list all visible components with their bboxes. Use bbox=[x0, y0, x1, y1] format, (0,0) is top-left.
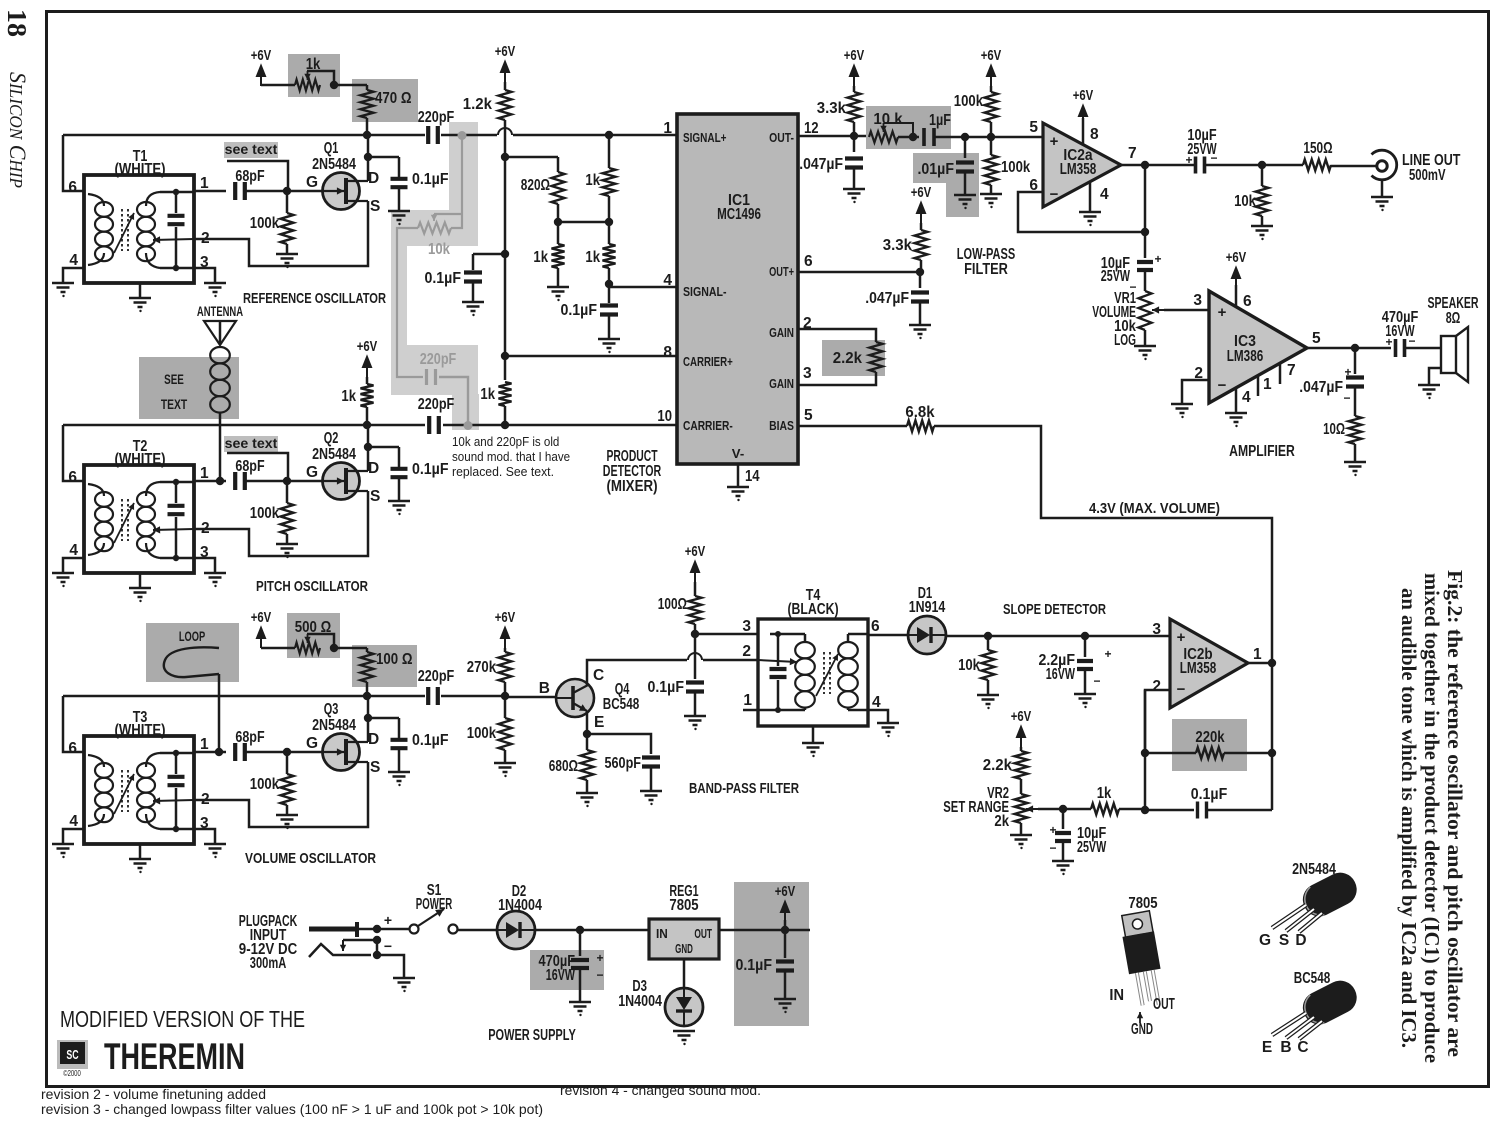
svg-text:OUT: OUT bbox=[694, 927, 712, 941]
svg-text:10: 10 bbox=[657, 408, 672, 425]
svg-text:VOLUME OSCILLATOR: VOLUME OSCILLATOR bbox=[245, 850, 376, 867]
svg-text:470 Ω: 470 Ω bbox=[375, 90, 412, 107]
svg-text:−: − bbox=[1408, 334, 1415, 348]
wire bbox=[1206, 809, 1272, 812]
ground bbox=[1052, 861, 1074, 870]
svg-text:0.1µF: 0.1µF bbox=[561, 302, 598, 319]
svg-text:2.2k: 2.2k bbox=[833, 350, 863, 367]
ground bbox=[727, 487, 749, 496]
svg-text:0.1µF: 0.1µF bbox=[412, 461, 449, 478]
svg-text:+: + bbox=[1185, 153, 1192, 167]
junction bbox=[1258, 161, 1266, 169]
svg-text:MODIFIED VERSION OF THE: MODIFIED VERSION OF THE bbox=[60, 1006, 305, 1032]
svg-text:100k: 100k bbox=[467, 725, 497, 742]
svg-text:revision 2 - volume finetuning: revision 2 - volume finetuning added bbox=[41, 1087, 266, 1102]
transistor Q1 2N5484 bbox=[323, 173, 360, 210]
svg-text:10 k: 10 k bbox=[873, 111, 903, 128]
svg-text:1: 1 bbox=[200, 736, 209, 753]
svg-text:.047µF: .047µF bbox=[799, 156, 843, 173]
svg-text:G: G bbox=[306, 464, 318, 481]
capacitor .01uF (new filter cap) bbox=[964, 137, 967, 158]
ground bbox=[598, 339, 620, 348]
resistor 100 ohm (T4 feed) bbox=[694, 582, 697, 596]
T3 internal tank capacitor bbox=[175, 753, 178, 774]
junction bbox=[501, 250, 509, 258]
svg-text:560pF: 560pF bbox=[605, 755, 642, 772]
capacitor 0.1uF (drain bypass) bbox=[391, 469, 408, 477]
svg-text:0.1µF: 0.1µF bbox=[412, 171, 449, 188]
svg-text:sound mod. that I have: sound mod. that I have bbox=[452, 449, 570, 464]
svg-text:1k: 1k bbox=[585, 172, 600, 189]
svg-text:2N5484: 2N5484 bbox=[312, 156, 356, 173]
ground bbox=[388, 501, 410, 510]
capacitor 0.1uF (feedback) bbox=[1198, 802, 1207, 819]
junction bbox=[1059, 805, 1067, 813]
svg-text:Fig.2: the reference oscillato: Fig.2: the reference oscillator and pitc… bbox=[1443, 570, 1467, 1057]
wire bbox=[1020, 823, 1023, 834]
svg-text:1k: 1k bbox=[306, 56, 321, 73]
svg-text:LOOP: LOOP bbox=[179, 628, 205, 644]
wire (Q4 collector to T4 pin 2) bbox=[587, 660, 687, 685]
T2 case ground wire bbox=[139, 573, 142, 587]
wire (+ supply) bbox=[359, 928, 410, 931]
wire (IC3 output) bbox=[1307, 347, 1391, 350]
ground bbox=[388, 211, 410, 220]
svg-text:+6V: +6V bbox=[251, 48, 272, 64]
svg-text:(BLACK): (BLACK) bbox=[787, 601, 838, 618]
junction bbox=[576, 926, 584, 934]
T2 pin 4 ground wire bbox=[63, 558, 84, 572]
T1 secondary winding bbox=[137, 202, 155, 217]
svg-text:CARRIER-: CARRIER- bbox=[683, 418, 733, 433]
ground bbox=[204, 283, 226, 292]
junction bbox=[909, 133, 917, 141]
T1 pin 1 wire to gate bbox=[194, 190, 226, 193]
highlight box for resistor 220k bbox=[1172, 719, 1247, 771]
IC1 pin 14 wire bbox=[737, 464, 740, 486]
svg-text:2N5484: 2N5484 bbox=[312, 446, 356, 463]
junction bbox=[215, 748, 223, 756]
svg-text:1: 1 bbox=[743, 692, 752, 709]
ground bbox=[547, 287, 569, 296]
highlight box for resistor 470 ohm bbox=[352, 79, 418, 122]
junction bbox=[283, 187, 291, 195]
wire bbox=[457, 929, 498, 932]
svg-text:3: 3 bbox=[803, 365, 812, 382]
T3 tap wire to pin 2 bbox=[153, 800, 194, 801]
svg-text:+: + bbox=[384, 912, 392, 928]
capacitor .047uF (out+ filter) bbox=[919, 272, 922, 288]
svg-text:D: D bbox=[368, 460, 379, 477]
grey mod capacitor 220pF bbox=[427, 369, 436, 385]
svg-text:1k: 1k bbox=[585, 249, 600, 266]
capacitor 0.1uF (output) bbox=[784, 930, 787, 958]
ground bbox=[576, 793, 598, 802]
svg-text:300mA: 300mA bbox=[250, 955, 287, 972]
junction bbox=[605, 280, 613, 288]
svg-text:220pF: 220pF bbox=[420, 351, 457, 368]
diode D2 1N4004 bbox=[497, 911, 535, 949]
resistor 1k (carrier divider) bbox=[504, 356, 507, 380]
wire bbox=[558, 221, 609, 224]
T1 primary winding bbox=[95, 202, 113, 217]
svg-text:2.2k: 2.2k bbox=[983, 757, 1013, 774]
T1 pin 4 ground wire bbox=[63, 268, 84, 282]
svg-text:8Ω: 8Ω bbox=[1446, 310, 1461, 327]
svg-text:−: − bbox=[1218, 377, 1227, 394]
svg-text:B: B bbox=[539, 680, 550, 697]
svg-text:+6V: +6V bbox=[495, 44, 516, 60]
capacitor 0.1uF (carrier bypass) bbox=[472, 254, 475, 270]
svg-text:1µF: 1µF bbox=[929, 112, 951, 129]
svg-text:7805: 7805 bbox=[1128, 895, 1158, 912]
grey mod wire bbox=[397, 228, 423, 377]
wire bbox=[505, 156, 558, 159]
svg-text:D: D bbox=[368, 170, 379, 187]
svg-text:D: D bbox=[1295, 932, 1306, 949]
svg-text:GAIN: GAIN bbox=[769, 376, 794, 391]
wire (IC1 pin 3 GAIN) bbox=[798, 372, 876, 385]
wire (Q4 base) bbox=[505, 696, 556, 699]
resistor 1k (to signal-) bbox=[608, 222, 611, 244]
T4 internal capacitor bbox=[770, 669, 787, 677]
svg-text:100Ω: 100Ω bbox=[658, 596, 687, 613]
svg-text:270k: 270k bbox=[467, 659, 497, 676]
svg-text:an audible tone which is ampli: an audible tone which is amplified by IC… bbox=[1397, 588, 1421, 1048]
svg-text:+: + bbox=[1049, 823, 1056, 837]
ground bbox=[684, 716, 706, 725]
svg-text:100k: 100k bbox=[250, 505, 280, 522]
svg-text:2N5484: 2N5484 bbox=[1292, 861, 1336, 878]
svg-text:0.1µF: 0.1µF bbox=[648, 679, 685, 696]
svg-text:1k: 1k bbox=[1097, 785, 1112, 802]
svg-text:25VW: 25VW bbox=[1077, 839, 1106, 856]
junction bbox=[1268, 749, 1276, 757]
svg-text:1N4004: 1N4004 bbox=[618, 993, 662, 1010]
svg-text:(WHITE): (WHITE) bbox=[114, 722, 165, 739]
T4 adjustable core bbox=[824, 652, 830, 694]
junction bbox=[330, 644, 338, 652]
resistor 1k (to IC2b) bbox=[1091, 804, 1119, 815]
svg-text:220k: 220k bbox=[1195, 729, 1225, 746]
resistor 470 ohm bbox=[366, 85, 369, 90]
svg-text:C: C bbox=[1297, 1039, 1308, 1056]
svg-text:GND: GND bbox=[675, 942, 693, 956]
wire (4.3V max volume net) bbox=[934, 426, 1272, 663]
junction (grey mod tap) bbox=[458, 131, 467, 140]
ground bbox=[388, 772, 410, 781]
resistor 10k (line out load) bbox=[1261, 165, 1264, 186]
wire bbox=[934, 136, 1043, 139]
svg-text:1.2k: 1.2k bbox=[463, 96, 493, 113]
svg-text:1k: 1k bbox=[341, 388, 356, 405]
svg-text:IN: IN bbox=[656, 927, 668, 941]
svg-text:LOG: LOG bbox=[1114, 332, 1136, 349]
T3 pin 4 ground wire bbox=[63, 829, 84, 843]
svg-text:LM358: LM358 bbox=[1060, 161, 1097, 178]
ground bbox=[1171, 404, 1193, 413]
svg-text:220pF: 220pF bbox=[418, 668, 455, 685]
T3 internal top rail wire bbox=[160, 752, 194, 755]
svg-text:SEE: SEE bbox=[164, 371, 184, 387]
svg-text:6: 6 bbox=[1243, 293, 1252, 310]
resistor 100k (pullup) bbox=[990, 86, 993, 92]
svg-text:100 Ω: 100 Ω bbox=[376, 651, 413, 668]
regulator REG1 7805 bbox=[649, 919, 719, 959]
transformer T3 box bbox=[84, 736, 194, 844]
T3 pin 1 wire to gate bbox=[194, 751, 226, 754]
svg-text:2: 2 bbox=[742, 643, 751, 660]
svg-text:ANTENNA: ANTENNA bbox=[197, 303, 243, 319]
T1 internal tank capacitor bbox=[175, 192, 178, 213]
loop pickup symbol bbox=[164, 647, 219, 677]
svg-text:see text: see text bbox=[225, 141, 278, 157]
ground bbox=[909, 325, 931, 334]
ground bbox=[393, 978, 415, 987]
svg-text:3.3k: 3.3k bbox=[883, 237, 913, 254]
junction bbox=[605, 131, 613, 139]
svg-text:10k: 10k bbox=[1234, 193, 1256, 210]
op-amp IC3 LM386 bbox=[1209, 291, 1307, 403]
ground bbox=[569, 1002, 591, 1011]
junction bbox=[501, 352, 509, 360]
svg-text:4: 4 bbox=[872, 694, 881, 711]
IC3 pin 4 wire bbox=[1235, 388, 1238, 412]
junction bbox=[850, 132, 858, 140]
svg-text:1k: 1k bbox=[480, 386, 495, 403]
svg-text:10Ω: 10Ω bbox=[1323, 421, 1345, 438]
capacitor 68pF bbox=[235, 182, 245, 200]
SC logo bbox=[57, 1040, 88, 1069]
svg-text:1N4004: 1N4004 bbox=[498, 897, 542, 914]
svg-text:SIGNAL+: SIGNAL+ bbox=[683, 130, 727, 145]
highlight box see text (T2) bbox=[224, 436, 278, 452]
svg-text:4: 4 bbox=[69, 252, 78, 269]
svg-text:68pF: 68pF bbox=[235, 729, 264, 746]
ground bbox=[1134, 346, 1156, 355]
junction bbox=[501, 421, 509, 429]
resistor 100k (pulldown) bbox=[990, 137, 993, 155]
svg-text:16VW: 16VW bbox=[546, 967, 575, 984]
ground bbox=[1344, 462, 1366, 471]
ground bbox=[640, 791, 662, 800]
T1 adjustable core bbox=[122, 209, 128, 251]
svg-text:820Ω: 820Ω bbox=[521, 177, 550, 194]
svg-text:S: S bbox=[370, 198, 380, 215]
svg-text:6: 6 bbox=[871, 618, 880, 635]
wire bbox=[1144, 330, 1147, 345]
T4 primary winding bbox=[795, 642, 815, 658]
sleeve switch contact bbox=[343, 939, 377, 942]
junction bbox=[363, 692, 371, 700]
wire (IC2a output) bbox=[1121, 164, 1196, 167]
svg-text:G: G bbox=[1259, 932, 1271, 949]
resistor 150 ohm bbox=[1303, 160, 1331, 171]
trimpot 500 ohm bbox=[295, 643, 320, 654]
svg-text:REFERENCE OSCILLATOR: REFERENCE OSCILLATOR bbox=[243, 290, 386, 307]
svg-text:7: 7 bbox=[1287, 362, 1296, 379]
wire (reference oscillator signal to IC1 pin 1) bbox=[63, 134, 425, 137]
svg-text:Q3: Q3 bbox=[324, 701, 339, 718]
svg-text:68pF: 68pF bbox=[235, 458, 264, 475]
svg-text:PITCH OSCILLATOR: PITCH OSCILLATOR bbox=[256, 578, 368, 595]
svg-text:6: 6 bbox=[68, 179, 77, 196]
svg-text:mixed together in the product: mixed together in the product detector (… bbox=[1420, 573, 1444, 1063]
ground bbox=[276, 254, 298, 263]
grey mod trimpot 10k bbox=[418, 223, 451, 234]
junction bbox=[363, 421, 371, 429]
svg-text:12: 12 bbox=[804, 120, 819, 137]
svg-text:SILICON CHIP: SILICON CHIP bbox=[5, 72, 30, 188]
junction bbox=[364, 714, 372, 722]
wire (IC2b output) bbox=[1248, 662, 1272, 665]
junction bbox=[363, 131, 371, 139]
svg-text:220pF: 220pF bbox=[418, 396, 455, 413]
svg-text:+6V: +6V bbox=[981, 48, 1002, 64]
svg-text:10k: 10k bbox=[428, 241, 450, 258]
T1 pin 6 feedback wire bbox=[63, 135, 84, 191]
svg-text:4: 4 bbox=[663, 272, 672, 289]
IC3 pin 2 wire bbox=[1182, 380, 1209, 403]
svg-text:150Ω: 150Ω bbox=[1303, 140, 1332, 157]
svg-text:E: E bbox=[1262, 1039, 1272, 1056]
junction bbox=[364, 153, 372, 161]
svg-text:14: 14 bbox=[745, 468, 760, 485]
diode D1 1N914 bbox=[908, 616, 946, 654]
IC3 pin 1 stub bbox=[1257, 376, 1260, 396]
svg-text:6: 6 bbox=[68, 740, 77, 757]
svg-text:S: S bbox=[370, 759, 380, 776]
wire (REG1 gnd pin) bbox=[683, 959, 686, 988]
svg-text:revision 3 - changed lowpass f: revision 3 - changed lowpass filter valu… bbox=[41, 1102, 543, 1117]
svg-text:5: 5 bbox=[804, 407, 813, 424]
capacitor 68pF bbox=[235, 472, 245, 490]
svg-text:replaced. See text.: replaced. See text. bbox=[452, 464, 554, 479]
highlight region of old sound mod (grey path) bbox=[449, 122, 478, 215]
svg-text:+: + bbox=[1050, 133, 1059, 150]
svg-text:4: 4 bbox=[69, 813, 78, 830]
T2 internal bottom rail wire bbox=[160, 557, 194, 560]
svg-text:.01µF: .01µF bbox=[918, 161, 955, 178]
svg-text:2: 2 bbox=[1194, 365, 1203, 382]
svg-text:+6V: +6V bbox=[251, 610, 272, 626]
resistor 1k (Q2 drain) bbox=[366, 377, 369, 384]
junction bbox=[501, 153, 509, 161]
svg-text:16VW: 16VW bbox=[1046, 666, 1075, 683]
IC3 pin 6 supply wire bbox=[1235, 285, 1238, 307]
ground bbox=[276, 815, 298, 824]
svg-text:V-: V- bbox=[732, 446, 744, 461]
junction bbox=[283, 748, 291, 756]
T2 adjustable core bbox=[122, 499, 128, 541]
resistor 2.2k (VR2 feed) bbox=[1020, 747, 1023, 751]
resistor 6.8k bbox=[907, 421, 934, 432]
svg-text:7: 7 bbox=[1128, 145, 1137, 162]
wire (REG1 out) bbox=[719, 929, 810, 932]
T2 internal tank capacitor bbox=[175, 482, 178, 503]
resistor 3.3k bbox=[853, 86, 856, 92]
svg-text:5: 5 bbox=[1029, 119, 1038, 136]
wire bbox=[1224, 752, 1272, 755]
wire bbox=[1404, 347, 1441, 350]
junction bbox=[1141, 161, 1149, 169]
T2 pin 6 feedback wire bbox=[63, 425, 84, 481]
T2 internal top rail wire bbox=[160, 481, 194, 484]
speaker ground wire bbox=[1429, 368, 1441, 384]
svg-text:8: 8 bbox=[1090, 126, 1099, 143]
resistor 1.2k bbox=[504, 82, 507, 90]
potentiometer VR2 SET RANGE 2k bbox=[1015, 794, 1028, 823]
ground bbox=[774, 999, 796, 1008]
svg-text:OUT+: OUT+ bbox=[769, 264, 794, 279]
ground bbox=[129, 298, 151, 307]
svg-text:−: − bbox=[1050, 186, 1059, 203]
trimpot 10k (lowpass) bbox=[869, 132, 898, 143]
svg-text:4: 4 bbox=[69, 542, 78, 559]
junction bbox=[501, 692, 509, 700]
svg-text:TEXT: TEXT bbox=[161, 396, 188, 412]
wire bbox=[334, 84, 367, 87]
T3 adjustable core bbox=[122, 770, 128, 812]
T2 pin 1 wire to gate bbox=[194, 480, 226, 483]
junction bbox=[1141, 749, 1149, 757]
junction bbox=[1268, 659, 1276, 667]
svg-text:BC548: BC548 bbox=[1294, 970, 1331, 987]
wire (bias chain down) bbox=[504, 157, 507, 356]
capacitor 0.1uF wire bbox=[368, 446, 399, 449]
Q2 source wire loop to pin 2 bbox=[194, 491, 368, 556]
svg-text:+: + bbox=[1177, 629, 1186, 646]
svg-text:3: 3 bbox=[742, 618, 751, 635]
wire bbox=[1204, 164, 1303, 167]
svg-text:3: 3 bbox=[1152, 621, 1161, 638]
resistor 220k (feedback) bbox=[1196, 748, 1224, 759]
svg-text:−: − bbox=[1177, 681, 1186, 698]
Q1 source wire loop to pin 2 bbox=[194, 201, 368, 266]
svg-text:E: E bbox=[594, 714, 604, 731]
svg-text:OUT: OUT bbox=[1153, 996, 1175, 1013]
svg-text:+6V: +6V bbox=[911, 185, 932, 201]
junction bbox=[364, 443, 372, 451]
svg-text:LM358: LM358 bbox=[1180, 660, 1217, 677]
svg-text:BC548: BC548 bbox=[603, 696, 640, 713]
svg-text:+: + bbox=[596, 951, 603, 965]
resistor 100k (gate bias) bbox=[286, 191, 289, 213]
T3 secondary winding bbox=[137, 763, 155, 778]
ground bbox=[462, 302, 484, 311]
T2 primary winding bbox=[95, 492, 113, 507]
capacitor 0.1uF wire bbox=[368, 717, 399, 720]
ground bbox=[276, 544, 298, 553]
grey mod wire from reference signal bbox=[451, 135, 462, 228]
capacitor 0.1uF (signal- bypass) bbox=[600, 306, 618, 315]
svg-text:see text: see text bbox=[225, 435, 278, 451]
IC2a pin 4 ground wire bbox=[1089, 182, 1092, 211]
capacitor 0.1uF (T4 feed bypass) bbox=[694, 634, 697, 679]
capacitor 10uF 25VW (range) bbox=[1062, 809, 1065, 829]
svg-text:−: − bbox=[1093, 674, 1100, 688]
highlight box for resistor 2.2k bbox=[822, 340, 885, 376]
svg-text:SLOPE DETECTOR: SLOPE DETECTOR bbox=[1003, 601, 1106, 618]
capacitor 0.1uF wire bbox=[368, 156, 399, 159]
T3 case ground wire bbox=[139, 844, 142, 858]
svg-text:6: 6 bbox=[68, 469, 77, 486]
wire bbox=[587, 734, 651, 754]
svg-text:0.1µF: 0.1µF bbox=[1191, 786, 1228, 803]
T4 secondary winding bbox=[838, 642, 858, 658]
svg-text:2N5484: 2N5484 bbox=[312, 717, 356, 734]
svg-text:+6V: +6V bbox=[844, 48, 865, 64]
